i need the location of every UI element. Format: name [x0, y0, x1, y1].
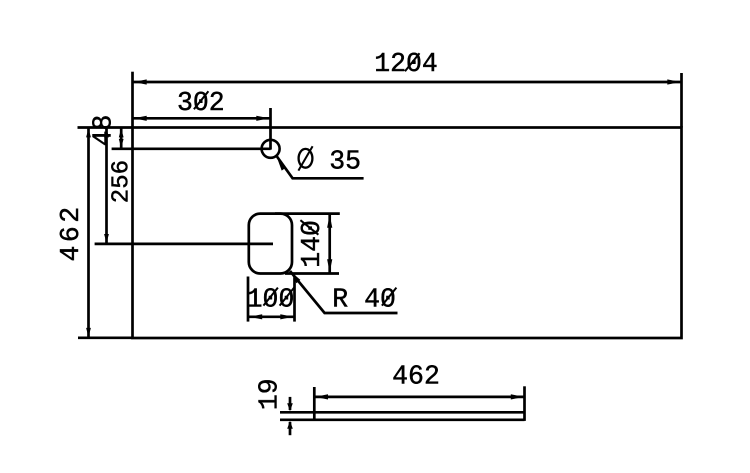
svg-text:256: 256: [108, 160, 135, 203]
svg-text:100: 100: [247, 284, 295, 314]
svg-text:35: 35: [329, 146, 361, 176]
svg-text:1204: 1204: [374, 49, 438, 79]
svg-text:140: 140: [297, 220, 327, 268]
svg-text:462: 462: [56, 203, 86, 261]
svg-text:302: 302: [177, 88, 225, 118]
svg-text:48: 48: [88, 115, 118, 147]
svg-text:462: 462: [392, 361, 440, 391]
svg-text:19: 19: [255, 378, 285, 410]
